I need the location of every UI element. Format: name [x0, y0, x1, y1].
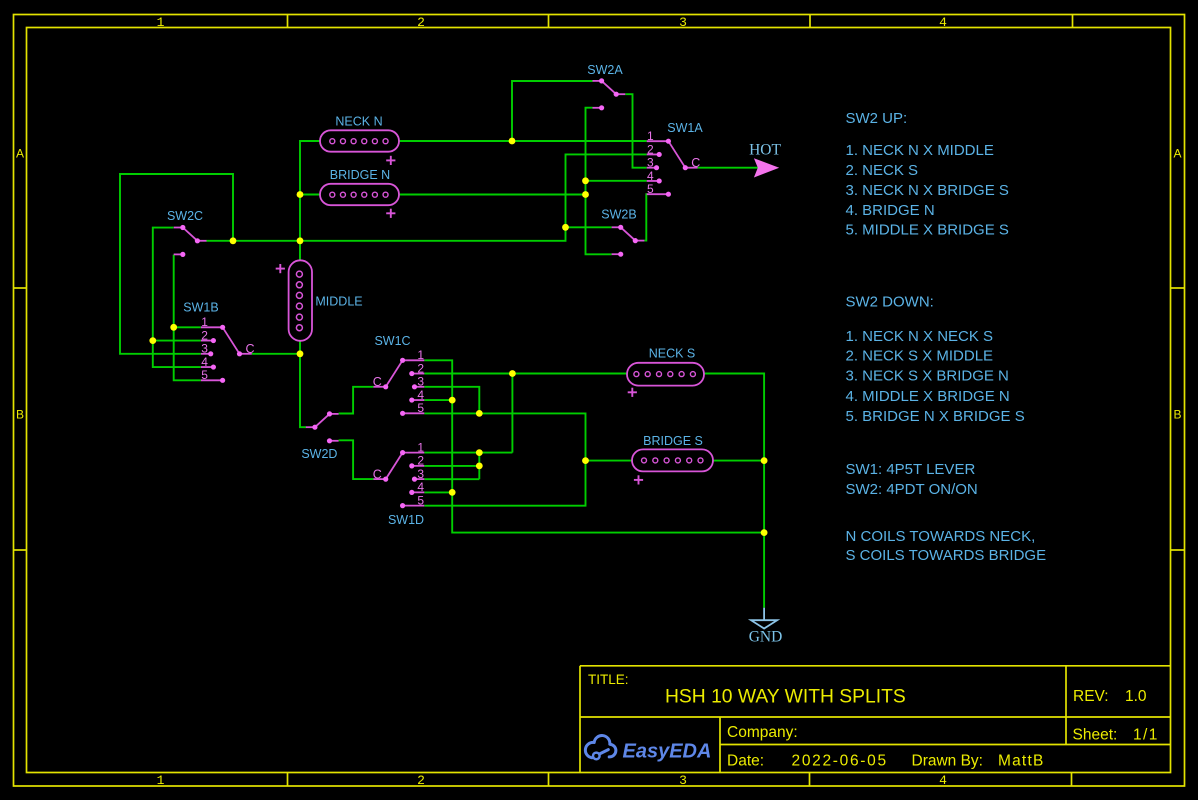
svg-text:C: C	[245, 342, 254, 356]
svg-text:3: 3	[679, 773, 687, 788]
svg-text:2. NECK S X MIDDLE: 2. NECK S X MIDDLE	[846, 348, 994, 365]
svg-text:Date:: Date:	[727, 753, 764, 770]
svg-text:HSH 10 WAY WITH SPLITS: HSH 10 WAY WITH SPLITS	[665, 687, 906, 708]
svg-text:2022-06-05: 2022-06-05	[792, 753, 888, 770]
svg-text:SW2B: SW2B	[601, 208, 636, 222]
svg-text:1. NECK N X NECK S: 1. NECK N X NECK S	[846, 328, 994, 345]
svg-text:4: 4	[647, 169, 654, 183]
svg-text:2. NECK S: 2. NECK S	[846, 162, 919, 179]
svg-text:SW1D: SW1D	[388, 513, 424, 527]
svg-text:SW2 DOWN:: SW2 DOWN:	[846, 294, 934, 311]
svg-text:C: C	[691, 156, 700, 170]
svg-text:SW2 UP:: SW2 UP:	[846, 110, 908, 127]
svg-text:3. NECK N X BRIDGE S: 3. NECK N X BRIDGE S	[846, 182, 1009, 199]
svg-text:1.0: 1.0	[1125, 688, 1147, 705]
svg-text:5: 5	[647, 182, 654, 196]
svg-text:2: 2	[417, 361, 424, 375]
svg-text:C: C	[373, 467, 382, 481]
svg-text:GND: GND	[749, 629, 783, 646]
svg-text:4: 4	[417, 480, 424, 494]
svg-text:TITLE:: TITLE:	[588, 672, 629, 687]
svg-text:B: B	[16, 407, 24, 421]
svg-text:MattB: MattB	[998, 753, 1044, 770]
svg-text:NECK N: NECK N	[335, 114, 382, 128]
svg-text:A: A	[16, 146, 24, 160]
svg-text:5. BRIDGE N X BRIDGE S: 5. BRIDGE N X BRIDGE S	[846, 408, 1025, 425]
svg-text:S COILS TOWARDS BRIDGE: S COILS TOWARDS BRIDGE	[846, 547, 1047, 564]
svg-text:SW2C: SW2C	[167, 209, 203, 223]
svg-text:3: 3	[417, 467, 424, 481]
svg-text:N COILS TOWARDS NECK,: N COILS TOWARDS NECK,	[846, 528, 1036, 545]
svg-text:2: 2	[417, 773, 425, 788]
svg-text:1: 1	[417, 348, 424, 362]
svg-text:Company:: Company:	[727, 724, 798, 741]
svg-text:3: 3	[647, 156, 654, 170]
svg-text:SW1B: SW1B	[183, 301, 218, 315]
svg-text:1: 1	[647, 129, 654, 143]
svg-text:4: 4	[417, 388, 424, 402]
svg-text:3: 3	[201, 342, 208, 356]
svg-text:3: 3	[417, 375, 424, 389]
svg-text:5: 5	[417, 401, 424, 415]
svg-text:SW1: 4P5T LEVER: SW1: 4P5T LEVER	[846, 461, 976, 478]
svg-text:REV:: REV:	[1073, 688, 1109, 705]
svg-text:B: B	[1173, 407, 1181, 421]
svg-text:4: 4	[939, 15, 947, 30]
svg-text:SW2: 4PDT ON/ON: SW2: 4PDT ON/ON	[846, 481, 978, 498]
svg-text:BRIDGE S: BRIDGE S	[643, 434, 703, 448]
svg-text:BRIDGE N: BRIDGE N	[330, 168, 390, 182]
svg-text:C: C	[373, 375, 382, 389]
svg-text:A: A	[1173, 146, 1181, 160]
svg-text:Drawn By:: Drawn By:	[912, 753, 984, 770]
svg-text:MIDDLE: MIDDLE	[315, 295, 362, 309]
svg-text:SW2D: SW2D	[301, 447, 337, 461]
svg-text:4: 4	[939, 773, 947, 788]
svg-text:HOT: HOT	[749, 142, 781, 159]
svg-text:4: 4	[201, 355, 208, 369]
svg-text:3. NECK S X BRIDGE N: 3. NECK S X BRIDGE N	[846, 368, 1009, 385]
svg-text:1: 1	[157, 773, 165, 788]
svg-text:EasyEDA: EasyEDA	[623, 741, 712, 763]
svg-text:1/1: 1/1	[1133, 727, 1159, 744]
svg-text:5. MIDDLE X BRIDGE S: 5. MIDDLE X BRIDGE S	[846, 221, 1009, 238]
svg-text:2: 2	[417, 15, 425, 30]
svg-text:1: 1	[201, 315, 208, 329]
svg-text:5: 5	[201, 368, 208, 382]
svg-text:5: 5	[417, 493, 424, 507]
svg-text:2: 2	[417, 454, 424, 468]
svg-text:4. BRIDGE N: 4. BRIDGE N	[846, 202, 935, 219]
svg-text:2: 2	[201, 328, 208, 342]
svg-text:1. NECK N X MIDDLE: 1. NECK N X MIDDLE	[846, 142, 994, 159]
svg-text:SW1A: SW1A	[667, 121, 703, 135]
svg-text:Sheet:: Sheet:	[1073, 727, 1118, 744]
svg-text:1: 1	[417, 440, 424, 454]
svg-text:4. MIDDLE X BRIDGE N: 4. MIDDLE X BRIDGE N	[846, 388, 1010, 405]
svg-text:SW1C: SW1C	[374, 334, 410, 348]
svg-text:2: 2	[647, 142, 654, 156]
svg-text:NECK S: NECK S	[649, 347, 696, 361]
svg-text:3: 3	[679, 15, 687, 30]
svg-text:1: 1	[157, 15, 165, 30]
svg-text:SW2A: SW2A	[587, 63, 623, 77]
